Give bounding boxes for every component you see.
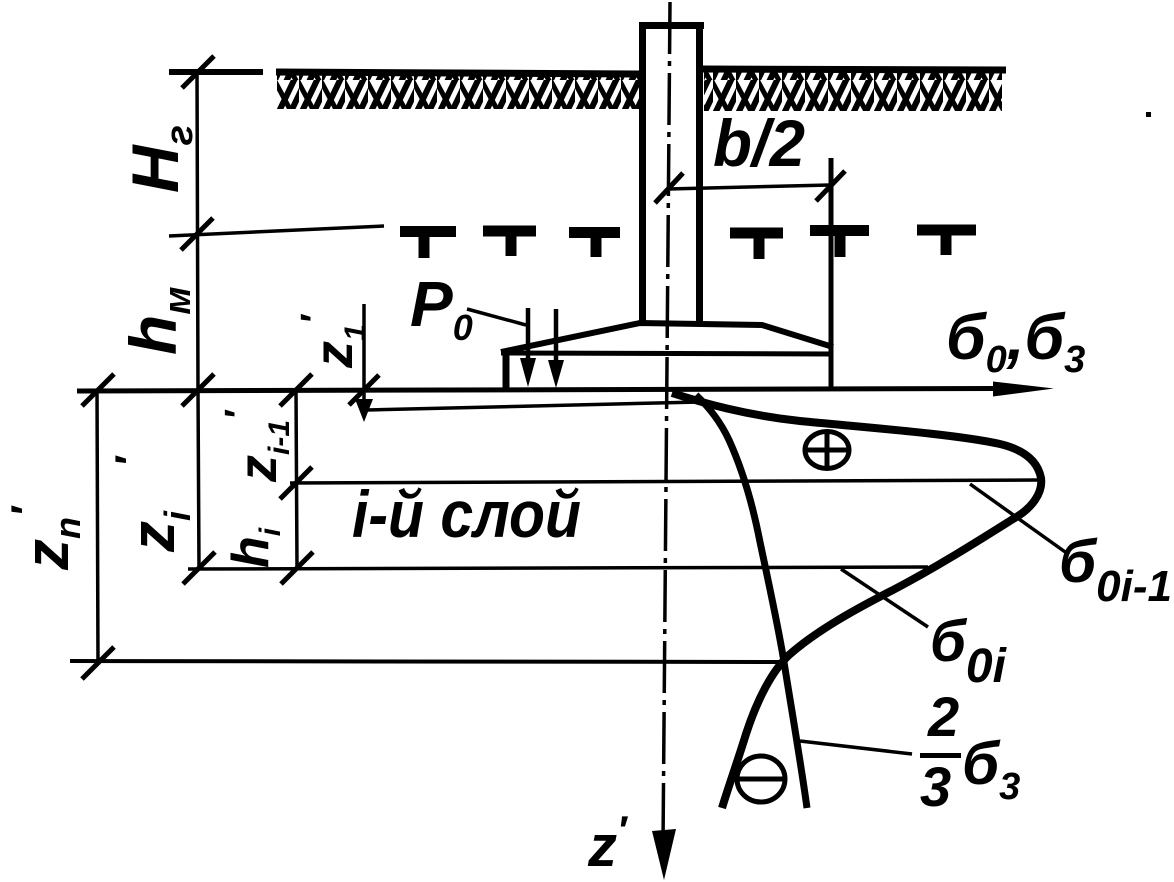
T mark 4 (730, 233, 783, 259)
layer bottom line (188, 567, 928, 569)
stray speck (1146, 112, 1151, 117)
tick z'n top (82, 374, 114, 406)
ground hatching left (277, 74, 641, 109)
compressible stratum bottom line (70, 661, 779, 662)
T mark 1 (400, 232, 456, 259)
centerline (dash-dot axis of column) (663, 2, 670, 845)
sigma0 stress curve (672, 393, 1041, 808)
plus zone symbol (805, 431, 849, 469)
load arrow 1 (526, 308, 531, 362)
tick x296 top (280, 374, 312, 406)
tick z'1 at axis (349, 375, 379, 405)
footing top profile (501, 323, 833, 352)
tick z'i bottom (183, 552, 215, 584)
ground surface line right segment (703, 69, 1006, 70)
footing left edge (503, 350, 510, 390)
z' axis arrowhead (652, 829, 676, 880)
tick at Hg top (182, 56, 214, 88)
tick x296 bottom (281, 552, 313, 584)
leader sigma0i-1 (970, 484, 1068, 554)
svg-text:3: 3 (920, 755, 951, 818)
reference line at underside of slag layer (169, 226, 384, 236)
tick at Hg bottom (181, 218, 213, 250)
footing mid line (501, 353, 833, 354)
ground hatching right (704, 72, 1002, 111)
column top bar (639, 22, 704, 29)
2/3 sigma3 curve (696, 395, 807, 808)
svg-text:i-й слой: i-й слой (352, 477, 581, 551)
main sigma axis line (77, 389, 995, 392)
sigma axis arrowhead (993, 382, 1054, 397)
layer top line (290, 480, 1039, 483)
leader sigma0i (841, 569, 928, 627)
T mark 6 (917, 230, 976, 255)
dimension line z'n (x=98) (97, 389, 98, 663)
load arrow 2 (554, 309, 559, 364)
T mark 3 (569, 233, 620, 258)
svg-text:b/2: b/2 (713, 106, 805, 180)
column right wall (696, 24, 703, 322)
ground surface line left segment (276, 72, 641, 74)
tick at axis x=198 (182, 374, 214, 406)
T mark 2 (483, 231, 536, 256)
b/2 dimension line (668, 185, 830, 189)
leader P0 (467, 309, 526, 325)
leader 2/3 sigma3 (800, 741, 912, 754)
tick b/2 right (816, 171, 845, 201)
tick x296 mid (280, 467, 312, 499)
column left wall (639, 24, 646, 322)
arrowhead z'1 pointing down (355, 399, 373, 422)
label 2/3 sigma3 fraction (920, 685, 1020, 818)
tick b/2 left (655, 173, 683, 203)
top reference tick line at ground level (169, 69, 263, 75)
b/2 witness line and footing right edge (829, 158, 834, 388)
T mark 5 (810, 231, 869, 258)
first sublayer line (367, 402, 700, 410)
witness line z'1 (x=364) (362, 304, 366, 404)
dimension line Hg / hm / z'i (x=198) (197, 71, 199, 568)
svg-text:2: 2 (927, 685, 959, 748)
dimension line h_i / z'i-1 (x=296) (296, 390, 297, 568)
tick z'n bottom (82, 647, 114, 679)
minus zone symbol (737, 756, 785, 802)
